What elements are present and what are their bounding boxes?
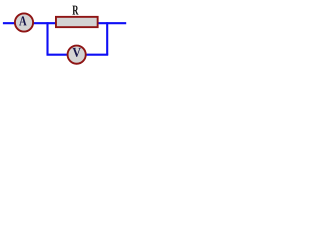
- ammeter A1: [15, 13, 33, 31]
- wire: right branch vertical: [106, 22, 108, 55]
- wire: left branch vertical: [46, 22, 48, 55]
- label R: [72, 6, 78, 15]
- ammeter label A: [19, 16, 27, 25]
- voltmeter V1: [68, 46, 86, 64]
- voltmeter label V: [73, 48, 81, 57]
- wire: bottom horizontal: [47, 54, 109, 56]
- wire: main horizontal: [3, 22, 126, 24]
- resistor R: [56, 17, 98, 27]
